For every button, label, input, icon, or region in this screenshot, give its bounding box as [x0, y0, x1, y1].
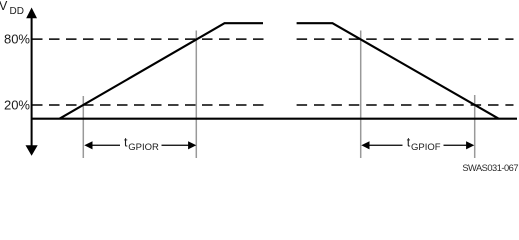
svg-text:GPIOR: GPIOR: [128, 142, 159, 153]
marker line at 20% rising crossing: [82, 96, 84, 158]
label t_GPIOF: [407, 135, 441, 153]
20% threshold dashed line: [32, 104, 514, 106]
label t_GPIOR: [124, 135, 159, 153]
label V_DD: [0, 0, 24, 17]
svg-text:SWAS031-067: SWAS031-067: [462, 163, 518, 172]
dimension arrow t_GPIOR: [84, 141, 196, 149]
waveform rising edge: [60, 23, 264, 119]
svg-text:80%: 80%: [4, 32, 30, 47]
marker line at 20% falling crossing: [474, 95, 476, 158]
80% threshold dashed line: [32, 38, 514, 40]
marker line at 80% rising crossing: [195, 31, 197, 159]
svg-text:DD: DD: [10, 6, 24, 17]
signal baseline: [32, 118, 517, 120]
svg-text:V: V: [0, 0, 8, 13]
svg-text:GPIOF: GPIOF: [411, 142, 441, 153]
svg-text:20%: 20%: [4, 97, 30, 112]
waveform falling edge: [297, 23, 499, 119]
marker line at 80% falling crossing: [360, 31, 362, 159]
y-axis: [26, 8, 38, 156]
dimension arrow t_GPIOF: [361, 141, 474, 149]
